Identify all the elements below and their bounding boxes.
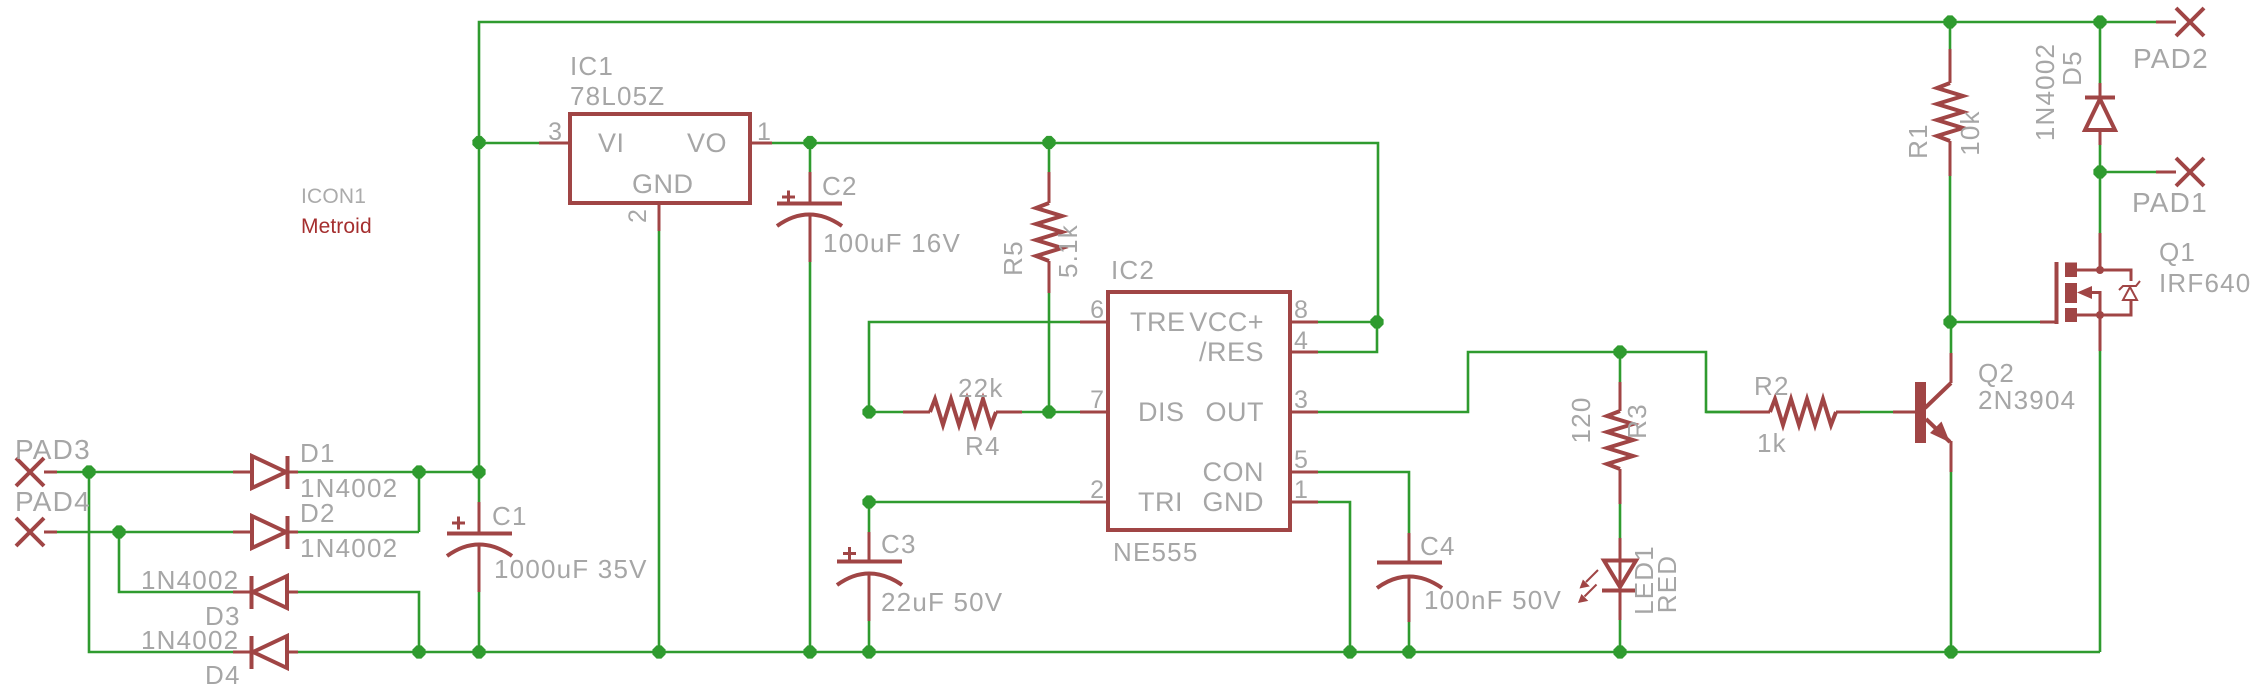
svg-text:100uF 16V: 100uF 16V [823, 228, 961, 258]
wire Q2 emitter down [1950, 472, 1953, 652]
node junction R3 top [1613, 345, 1626, 358]
pin 3 IC1 [539, 142, 568, 145]
node junction rail IC1gnd [652, 645, 665, 658]
svg-text:D4: D4 [205, 660, 241, 688]
LED LED1 [1578, 538, 1637, 652]
svg-text:CON: CON [1203, 457, 1265, 487]
svg-text:PAD2: PAD2 [2133, 43, 2209, 74]
svg-text:2: 2 [624, 209, 652, 223]
svg-text:Q1: Q1 [2159, 237, 2196, 267]
wire VO rail y143 [479, 142, 539, 145]
wire D3 right down [298, 592, 419, 652]
svg-text:TRI: TRI [1138, 487, 1183, 517]
node junction R4 left [862, 405, 875, 418]
svg-text:D5: D5 [2057, 50, 2087, 86]
node junction D5 top [2093, 15, 2106, 28]
svg-text:VO: VO [687, 128, 727, 158]
node junction top of C1 col [472, 465, 485, 478]
pad PAD2 [2156, 8, 2204, 36]
wire TRE net [869, 322, 1080, 412]
node junction R1 bottom / gate [1943, 315, 1956, 328]
wire ground rail [298, 651, 2100, 654]
svg-text:C1: C1 [492, 501, 528, 531]
wire Q2 collector up [1950, 322, 1953, 353]
node junction rail C3 [862, 645, 875, 658]
wire TRI net [869, 501, 1080, 504]
wire PAD3 down to rail [89, 472, 233, 652]
svg-text:VCC+: VCC+ [1189, 307, 1264, 337]
svg-text:GND: GND [1203, 487, 1265, 517]
svg-text:R5: R5 [998, 240, 1028, 276]
svg-text:5.1k: 5.1k [1053, 224, 1083, 278]
transistor Q1 IRF640 mosfet [2040, 172, 2140, 351]
svg-text:22k: 22k [958, 373, 1004, 403]
svg-text:1000uF 35V: 1000uF 35V [494, 554, 648, 584]
svg-text:IRF640: IRF640 [2159, 268, 2251, 298]
pin 6 IC2 TRE [1080, 321, 1108, 324]
node junction rail C1 [472, 645, 485, 658]
svg-text:2: 2 [1090, 476, 1104, 504]
svg-text:/RES: /RES [1199, 337, 1264, 367]
resistor R1 [1937, 22, 1963, 322]
pin 2 IC1 [658, 203, 661, 231]
node junction VO at 479,143 [472, 136, 485, 149]
pin 8 IC2 VCC [1290, 321, 1318, 324]
node junction PAD3 branch [82, 465, 95, 478]
svg-text:VI: VI [598, 128, 625, 158]
svg-text:Q2: Q2 [1978, 358, 2015, 388]
svg-text:1N4002: 1N4002 [141, 625, 239, 655]
node junction rail C4 [1402, 645, 1415, 658]
capacitor C1 [447, 472, 512, 652]
wire VO rail right [772, 143, 1378, 322]
wire D1D2 vertical [418, 472, 421, 532]
svg-text:1N4002: 1N4002 [141, 565, 239, 595]
svg-text:1N4002: 1N4002 [300, 533, 398, 563]
resistor R5 [1036, 143, 1062, 412]
pad PAD1 [2100, 158, 2204, 186]
svg-text:1N4002: 1N4002 [2030, 43, 2060, 141]
wire top rail VIN [479, 22, 2158, 472]
node junction rail C2 [803, 645, 816, 658]
node junction C2 top [803, 136, 816, 149]
svg-text:ICON1: ICON1 [301, 185, 366, 208]
svg-text:100nF 50V: 100nF 50V [1424, 585, 1562, 615]
svg-text:PAD1: PAD1 [2132, 187, 2208, 218]
svg-text:4: 4 [1294, 327, 1308, 355]
svg-text:R1: R1 [1903, 123, 1933, 159]
diode D4 [233, 636, 298, 669]
wire OUT net jog [1318, 352, 1740, 412]
diode D3 [233, 576, 298, 609]
svg-text:1k: 1k [1757, 428, 1787, 458]
svg-text:Metroid: Metroid [301, 215, 372, 238]
IC2 NE555 box [1108, 292, 1290, 530]
node junction R5 top [1042, 136, 1055, 149]
capacitor C3 [837, 502, 902, 652]
pad PAD3 [16, 458, 57, 486]
svg-text:GND: GND [632, 169, 694, 199]
node junction PAD1 [2093, 165, 2106, 178]
pin 7 IC2 DIS [1080, 411, 1108, 414]
svg-text:R4: R4 [965, 431, 1001, 461]
svg-text:OUT: OUT [1206, 397, 1265, 427]
wire pin8 to junction [1318, 321, 1377, 324]
resistor R3 [1607, 352, 1633, 538]
wire D2 right [298, 531, 419, 534]
svg-text:C3: C3 [881, 529, 917, 559]
pin 5 IC2 CON [1290, 471, 1318, 474]
diode D2 [233, 516, 298, 549]
svg-text:6: 6 [1090, 296, 1104, 324]
pin 1 IC1 [752, 142, 772, 145]
node junction R1 top [1943, 15, 1956, 28]
svg-text:PAD4: PAD4 [15, 486, 91, 517]
svg-text:NE555: NE555 [1113, 537, 1199, 567]
node junction rail LED [1613, 645, 1626, 658]
svg-text:1: 1 [757, 118, 771, 146]
pin 2 IC2 TRI [1080, 501, 1108, 504]
svg-text:78L05Z: 78L05Z [570, 81, 665, 111]
svg-text:R3: R3 [1622, 403, 1652, 439]
svg-text:1: 1 [1294, 476, 1308, 504]
svg-text:D1: D1 [300, 438, 336, 468]
svg-text:IC2: IC2 [1111, 255, 1155, 285]
node junction D1 right [412, 465, 425, 478]
svg-text:5: 5 [1294, 446, 1308, 474]
svg-text:8: 8 [1294, 296, 1308, 324]
wire pin4 up to VCC junction [1318, 322, 1377, 352]
wire PAD4 down to D3 [119, 532, 233, 592]
capacitor C4 [1377, 533, 1442, 652]
diode D5 [2085, 22, 2115, 172]
svg-text:PAD3: PAD3 [15, 434, 91, 465]
wire IC1 GND down [658, 231, 661, 652]
svg-text:2N3904: 2N3904 [1978, 385, 2076, 415]
node junction VCC 1377,322 [1370, 315, 1383, 328]
node junction R4/R5/pin7 [1042, 405, 1055, 418]
wire PAD3 to D1 [57, 471, 233, 474]
resistor R4 [869, 399, 1080, 425]
svg-text:IC1: IC1 [570, 51, 614, 81]
wire PAD4 to D2 [57, 531, 233, 534]
svg-text:C2: C2 [822, 171, 858, 201]
svg-text:TRE: TRE [1130, 307, 1186, 337]
transistor Q2 2N3904 [1893, 353, 1951, 472]
svg-text:22uF 50V: 22uF 50V [881, 587, 1003, 617]
pin 3 IC2 OUT [1290, 411, 1318, 414]
wire D1 to C1 node [298, 471, 479, 474]
wire gate net [1950, 321, 2040, 324]
diode D1 [233, 456, 298, 489]
resistor R2 [1706, 399, 1893, 425]
IC1 78L05Z regulator box [570, 114, 750, 203]
pin 4 IC2 /RES [1290, 351, 1318, 354]
svg-text:DIS: DIS [1138, 397, 1185, 427]
svg-text:7: 7 [1090, 386, 1104, 414]
svg-text:D2: D2 [300, 498, 336, 528]
svg-text:RED: RED [1652, 555, 1682, 614]
pad PAD4 [16, 518, 57, 546]
node junction rail D3 [412, 645, 425, 658]
svg-text:3: 3 [548, 118, 562, 146]
svg-text:3: 3 [1294, 386, 1308, 414]
wire pin1 to rail [1318, 502, 1350, 652]
svg-text:R2: R2 [1754, 371, 1790, 401]
wire CON to C4 [1318, 472, 1409, 533]
node junction TRI left [862, 495, 875, 508]
svg-text:C4: C4 [1420, 531, 1456, 561]
node junction PAD4 branch [112, 525, 125, 538]
node junction rail IC2gnd [1343, 645, 1356, 658]
node junction rail Q2e [1944, 645, 1957, 658]
svg-text:10k: 10k [1955, 110, 1985, 156]
capacitor C2 [777, 143, 842, 652]
svg-text:120: 120 [1566, 397, 1596, 444]
pin 1 IC2 GND [1290, 501, 1318, 504]
wire Q1 source down [2099, 351, 2102, 652]
